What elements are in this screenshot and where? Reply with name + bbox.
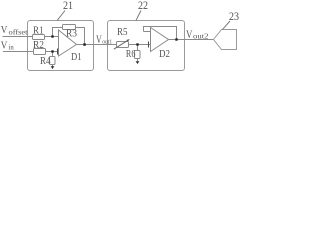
wire Vin input [3,51,34,53]
wire D2 inverting input [144,31,151,33]
op-amp D2 [151,28,169,52]
wire R2 to D1 noninverting input [46,51,59,53]
wire R5 to D2 noninverting input [129,44,151,46]
leader line 23 [223,21,231,29]
wire feedback right and down to D1 output [76,28,85,45]
wire R6 to ground [137,59,139,62]
wire D1 output to R5 [77,44,117,46]
resistor R2 [34,49,46,55]
wire R4 to ground [52,65,54,67]
junction node R1/R3 feedback [51,35,53,37]
svg-text:out2: out2 [193,33,209,41]
svg-text:in: in [9,43,15,51]
op-amp D1 [59,30,77,56]
resistor R5 [117,42,129,48]
wire Voffset input [3,36,33,38]
svg-text:R4: R4 [40,56,51,67]
leader line 21 [57,11,65,21]
resistor R4 [50,57,56,65]
ground arrow under R4 [51,66,55,69]
junction node D1 output [83,43,86,46]
wire R1 to D1 inverting input [45,36,59,38]
ground arrow under R6 [136,61,140,64]
svg-text:R2: R2 [33,40,44,51]
connector 23 pentagon [214,30,237,50]
plus marker D2 [148,42,150,48]
svg-text:D1: D1 [71,51,82,63]
svg-text:V: V [1,40,8,51]
svg-text:R6: R6 [126,49,135,60]
svg-text:R1: R1 [33,26,44,37]
arrow of variable resistor R5 [114,41,127,49]
resistor R3 [63,25,76,30]
svg-text:21: 21 [63,0,73,12]
svg-text:V: V [186,27,193,41]
svg-text:offset: offset [9,27,29,36]
leader line 22 [136,11,141,21]
wire D2 output [169,39,214,41]
block 21 box [28,21,94,71]
arrowhead of variable resistor R5 [127,39,130,42]
block 22 box [108,21,185,71]
svg-text:22: 22 [138,0,148,12]
resistor R1 [33,35,45,40]
junction node D2 output [175,38,177,40]
junction node R2/R4 [51,50,53,52]
wire R6 drop [137,45,139,51]
resistor R6 [135,51,141,59]
wire R4 drop [52,52,54,57]
svg-text:out1: out1 [102,39,112,46]
junction node R5/R6 [136,43,138,45]
svg-text:R5: R5 [117,27,128,38]
svg-text:23: 23 [229,11,239,23]
plus marker D1 [57,49,59,55]
svg-text:D2: D2 [159,49,170,60]
svg-text:V: V [1,25,8,36]
wire feedback up from node A [53,28,63,37]
wire D2 feedback loop [144,27,177,40]
svg-text:R3: R3 [66,29,77,40]
